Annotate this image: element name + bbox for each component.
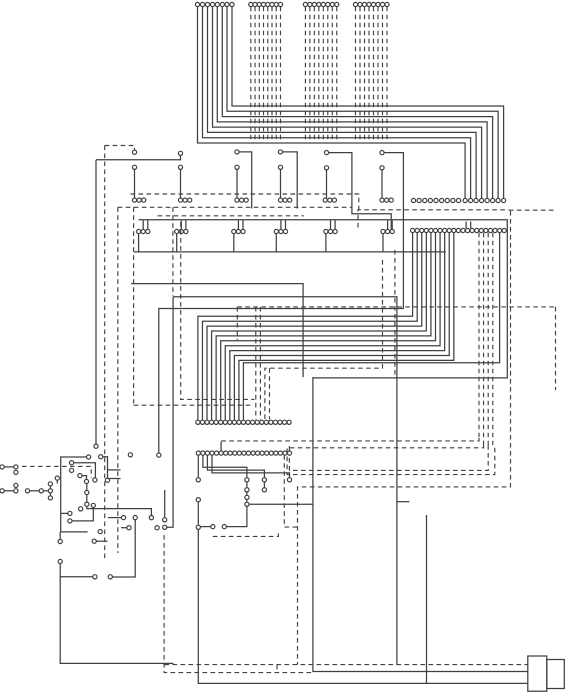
relay box B right edge wire — [298, 211, 511, 665]
fuse box A left edge — [117, 207, 119, 553]
dashed elbow x180 — [181, 222, 255, 399]
dashed link to box — [22, 466, 91, 478]
pigtail wire 3 — [25, 482, 52, 500]
relay box B inner dashed edge — [394, 250, 396, 378]
wire bottom end x130 — [128, 453, 132, 457]
connector D pin 2 — [358, 2, 362, 142]
connector C pin 7 — [330, 2, 334, 142]
fuse box A bottom edge — [118, 206, 352, 208]
dashed box C bottom — [213, 531, 279, 537]
module M1 stub — [397, 501, 410, 503]
contact chain x247 — [245, 482, 249, 506]
connector D pin 8 — [385, 2, 389, 142]
harness wire 3 — [205, 233, 422, 425]
wire H1 long down — [196, 498, 528, 684]
pigtail wire 2 — [0, 483, 18, 493]
connector B pin 8 — [278, 2, 282, 142]
connector A pin 6 — [220, 2, 495, 202]
connector B pin 4 — [261, 2, 265, 142]
connector B pin 3 — [257, 2, 261, 142]
relay socket R3 — [232, 220, 245, 252]
connector D pin 1 — [353, 2, 357, 142]
switch gap wire — [60, 575, 112, 579]
dashed wire with elbow — [265, 260, 383, 420]
outer dashed box top segment — [509, 209, 556, 211]
contact on left edge — [55, 476, 59, 484]
connector B pin 1 — [249, 2, 253, 142]
connector D pin 5 — [371, 2, 375, 142]
battery box 2 — [547, 660, 565, 689]
connector row H pins — [196, 451, 291, 455]
connector C pin 4 — [317, 2, 321, 142]
contact chain x264 — [262, 482, 266, 492]
socket pins P2 — [178, 198, 191, 202]
wire long vertical x96 — [94, 160, 98, 449]
connector A pin 2 — [200, 2, 472, 202]
wire H1 down — [196, 455, 200, 482]
dashed jog x277 — [276, 665, 278, 673]
fuse box A top edge — [131, 194, 359, 210]
fuse F1 — [132, 150, 136, 198]
relay socket R5 — [324, 220, 337, 252]
harness wire 10 — [237, 233, 454, 425]
contact K5 — [79, 507, 83, 511]
socket pins P6 — [380, 198, 393, 202]
harness wire 2 — [200, 233, 417, 425]
wire H3 staircase — [207, 455, 266, 482]
fuse F4 — [278, 150, 297, 209]
contact pair K6 — [61, 503, 96, 523]
contact row y517 — [108, 516, 153, 520]
harness wire 7 — [223, 233, 440, 425]
dashed stub right — [555, 307, 557, 390]
connector A pin 5 — [215, 2, 489, 202]
wire dashed to fuse F1 — [105, 146, 135, 150]
dashed wire drop x284 — [284, 455, 297, 527]
wire drop x426 — [426, 515, 428, 683]
connector A pin 8 — [230, 2, 506, 202]
dashed wire drop 1 — [255, 307, 257, 420]
relay socket R4 — [274, 220, 287, 252]
connector D pin 3 — [362, 2, 366, 142]
dashed hang circle x289 — [288, 446, 290, 451]
harness wire 5 — [214, 233, 431, 425]
dashed bus mid — [237, 306, 555, 308]
wire y296 elbow — [173, 297, 397, 665]
connector B pin 6 — [270, 2, 274, 142]
wire ground drop x60 — [58, 532, 173, 663]
switch contact K3 — [78, 474, 89, 484]
connector D pin 6 — [376, 2, 380, 142]
contact below box — [92, 530, 107, 544]
dashed drop x164 — [164, 535, 313, 673]
dashed bus bottom — [165, 664, 528, 666]
connector D pin 7 — [380, 2, 384, 142]
harness wire 8 — [228, 233, 445, 425]
dashed wire s2 — [287, 445, 495, 475]
connector D pin 4 — [367, 2, 371, 142]
dashed wire s1 — [221, 438, 479, 441]
dashed trunk x104 — [104, 146, 106, 561]
dashed wires below row F — [479, 233, 493, 445]
harness wire 9 — [232, 233, 449, 425]
switch pair y526 — [201, 507, 247, 529]
connector C pin 6 — [326, 2, 330, 142]
fuse F5 — [324, 151, 391, 230]
cross wires right of box — [108, 470, 121, 479]
dashed wire drop 2 — [259, 307, 261, 420]
relay box outline — [61, 455, 91, 532]
harness wire 4 — [209, 233, 426, 425]
wire y283 elbow — [131, 284, 303, 378]
switch contact K1 — [99, 455, 110, 483]
relay socket R1 — [137, 220, 150, 252]
relay box B outline — [358, 210, 509, 228]
harness wire 1 — [196, 233, 413, 425]
contact pair y527 — [121, 526, 159, 530]
contact chain K4 — [85, 484, 154, 520]
dashed drop x172 — [172, 207, 174, 296]
connector row E pins — [411, 198, 460, 202]
wire H2 staircase — [203, 455, 249, 482]
connector B pin 2 — [253, 2, 257, 142]
connector C pin 5 — [321, 2, 325, 142]
dashed cover row2 — [158, 215, 304, 217]
dashed wire s3 — [289, 445, 488, 470]
bus wire lower — [134, 251, 446, 253]
connector row G pins — [246, 420, 291, 424]
bus wire upper — [139, 220, 508, 378]
contact x164 — [163, 490, 167, 522]
wire H4 staircase — [212, 455, 292, 482]
dashed elbow x131 — [134, 207, 251, 405]
connector C pin 1 — [303, 2, 307, 142]
relay socket R2 — [175, 220, 188, 252]
fuse F2 — [178, 151, 182, 198]
connector A pin 1 — [195, 2, 467, 202]
connector C pin 8 — [335, 2, 339, 142]
socket pins P5 — [323, 198, 336, 202]
connector C pin 2 — [308, 2, 312, 142]
connector C pin 3 — [312, 2, 316, 142]
socket pins P1 — [132, 198, 145, 202]
battery box 1 — [528, 656, 547, 691]
harness wire 11 — [241, 233, 499, 425]
connector A pin 4 — [210, 2, 483, 202]
fuse F6 — [157, 151, 404, 458]
jog wire x173 — [163, 297, 174, 530]
dashed stub left — [236, 307, 238, 340]
wire from node at x96 — [96, 156, 181, 160]
socket pins P3 — [235, 198, 248, 202]
connector A pin 7 — [225, 2, 500, 202]
harness wire 6 — [219, 233, 436, 425]
riser row2 — [220, 442, 222, 451]
switch contact K2 — [70, 461, 98, 483]
pigtail wire 1 — [0, 465, 18, 475]
module M1 left edge — [313, 377, 528, 671]
wire to module left edge — [249, 503, 313, 505]
riser wires to bus — [466, 222, 471, 229]
fuse F3 — [235, 150, 252, 209]
connector A pin 3 — [205, 2, 478, 202]
wire switch arm x135 — [110, 520, 135, 577]
connector B pin 7 — [274, 2, 278, 142]
socket pins P4 — [278, 198, 291, 202]
connector row F pins — [411, 228, 507, 232]
relay socket R6 — [381, 220, 394, 252]
connector B pin 5 — [266, 2, 270, 142]
